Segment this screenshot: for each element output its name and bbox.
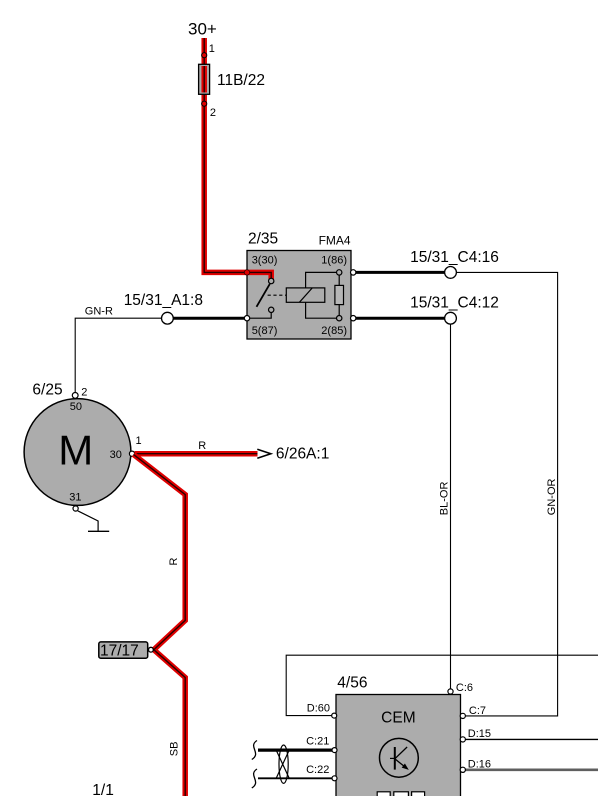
- svg-text:15/31_A1:8: 15/31_A1:8: [124, 292, 203, 309]
- wire C:21 thick: [258, 748, 332, 751]
- svg-text:GN-R: GN-R: [85, 306, 113, 318]
- svg-text:C:22: C:22: [306, 764, 329, 776]
- relay pin 2 circle: [337, 316, 342, 321]
- svg-text:4/56: 4/56: [337, 675, 367, 692]
- wire break squiggle C:22: [252, 769, 257, 788]
- CEM pin D:16: [460, 767, 465, 772]
- relay pin 1 circle: [337, 270, 342, 275]
- fuse pin 1: [202, 53, 207, 58]
- svg-text:C:21: C:21: [306, 736, 329, 748]
- svg-text:CEM: CEM: [381, 710, 415, 727]
- svg-text:15/31_C4:16: 15/31_C4:16: [410, 249, 499, 266]
- svg-text:1: 1: [136, 435, 142, 447]
- motor pin 2: [72, 393, 78, 399]
- relay edge connector circle top-right: [351, 270, 356, 275]
- wire D:60 from CEM up and right: [286, 655, 598, 715]
- svg-text:D:60: D:60: [307, 702, 330, 714]
- CEM pin D:60: [332, 713, 337, 718]
- arrow to 6/26A:1: [257, 449, 271, 458]
- twisted pair symbol: [276, 745, 289, 783]
- connector 15/31_C4:16: [445, 267, 457, 279]
- svg-text:31: 31: [69, 492, 81, 504]
- svg-text:M: M: [58, 427, 93, 474]
- svg-text:17/17: 17/17: [100, 643, 139, 660]
- CEM pin C:6: [448, 689, 453, 694]
- svg-text:C:7: C:7: [469, 705, 486, 717]
- svg-text:D:16: D:16: [468, 758, 491, 770]
- relay edge connector circle left: [244, 316, 249, 321]
- wire R red to 6/26A:1: [135, 451, 258, 457]
- relay actuator dashed link: [268, 294, 287, 296]
- relay edge connector circle bottom-right: [351, 316, 356, 321]
- svg-text:BL-OR: BL-OR: [439, 482, 451, 516]
- CEM pin C:21: [332, 748, 337, 753]
- relay switch arm: [257, 284, 270, 307]
- fuse 11B/22: [199, 64, 210, 94]
- relay coil K: [286, 288, 325, 302]
- svg-text:C:6: C:6: [456, 682, 473, 694]
- connector 17/17: [99, 642, 154, 660]
- CEM 4/56 box: [336, 695, 461, 796]
- relay 2/35 box: [247, 251, 351, 340]
- wire 15/31_C4:12 thick: [356, 317, 445, 320]
- wire 15/31_C4:16 thick: [356, 271, 445, 274]
- ground: [78, 511, 110, 532]
- wire red SB down from motor pin 1 through 17/17: [134, 454, 186, 796]
- svg-text:2/35: 2/35: [248, 231, 278, 248]
- relay pin 3 circle: [269, 278, 274, 283]
- relay pin 5 circle: [269, 307, 274, 312]
- svg-text:15/31_C4:12: 15/31_C4:12: [410, 294, 499, 311]
- fuse pin 2: [202, 101, 207, 106]
- svg-text:GN-OR: GN-OR: [546, 478, 558, 515]
- relay internal: junction dot red at box edge: [244, 270, 249, 275]
- svg-text:D:15: D:15: [468, 728, 491, 740]
- svg-text:R: R: [168, 558, 180, 566]
- svg-text:R: R: [198, 440, 206, 452]
- svg-text:5(87): 5(87): [252, 325, 278, 337]
- svg-text:50: 50: [70, 401, 82, 413]
- motor pin 1: [129, 451, 134, 456]
- svg-text:30: 30: [110, 449, 122, 461]
- motor 6/25: [24, 399, 131, 506]
- svg-text:2: 2: [81, 386, 87, 398]
- wire 15/31_A1:8 thick: [173, 317, 244, 320]
- wire GN-OR from C4:16 to CEM C:7: [456, 272, 557, 716]
- wire D:16 gray: [465, 768, 598, 771]
- svg-text:FMA4: FMA4: [319, 234, 351, 248]
- svg-text:SB: SB: [168, 742, 180, 757]
- wire GN-R to motor pin 2: [75, 318, 161, 392]
- svg-text:6/25: 6/25: [32, 382, 62, 399]
- wire red battery feed from 30+ through fuse to relay pin 3: [204, 38, 271, 281]
- svg-text:1: 1: [209, 43, 215, 55]
- wire C:22: [258, 777, 332, 779]
- wire coil to pin2 branch: [306, 302, 337, 318]
- resistor in relay: [335, 275, 344, 316]
- wire break squiggle C:21: [252, 741, 257, 760]
- motor pin 31: [73, 506, 78, 511]
- CEM bottom pin boxes: [377, 792, 424, 796]
- wire coil to pin1 branch: [306, 272, 337, 288]
- CEM pin C:22: [332, 776, 337, 781]
- wire pin5 to box edge: [247, 313, 271, 319]
- svg-text:6/26A:1: 6/26A:1: [276, 445, 329, 462]
- svg-text:1(86): 1(86): [321, 255, 347, 267]
- wire BL-OR from C4:12 to CEM C:6: [450, 324, 452, 689]
- svg-text:30+: 30+: [188, 20, 217, 39]
- svg-text:2: 2: [210, 107, 216, 119]
- svg-text:3(30): 3(30): [252, 255, 278, 267]
- connector 15/31_C4:12: [445, 312, 457, 324]
- CEM pin D:15: [460, 737, 465, 742]
- svg-text:11B/22: 11B/22: [217, 72, 265, 89]
- wire D:15: [465, 738, 598, 740]
- CEM pin C:7: [460, 713, 465, 718]
- transistor symbol in CEM: [380, 738, 419, 777]
- svg-text:2(85): 2(85): [321, 325, 347, 337]
- svg-text:1/1: 1/1: [92, 782, 114, 796]
- connector 15/31_A1:8: [162, 312, 174, 324]
